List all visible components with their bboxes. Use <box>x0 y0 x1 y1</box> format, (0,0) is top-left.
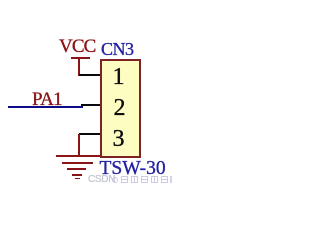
ground bar 5 <box>75 178 80 180</box>
pin number 2 <box>111 96 128 120</box>
type label TSW-30 <box>100 159 166 179</box>
ground bar 3 <box>67 168 86 170</box>
ground stem wire <box>78 134 80 157</box>
pin 2 stub <box>81 104 100 106</box>
connector CN3 body <box>100 59 141 158</box>
watermark @ glyph <box>112 177 118 183</box>
pin 3 stub <box>79 133 100 135</box>
label VCC <box>59 37 95 56</box>
pin 1 stub <box>79 74 100 76</box>
net label PA1 <box>32 90 62 109</box>
wire PA1 <box>8 106 83 108</box>
power symbol VCC bar <box>71 57 90 59</box>
ground bar 1 <box>56 155 100 157</box>
power symbol VCC stem <box>78 59 80 76</box>
pin number 3 <box>110 127 127 151</box>
watermark CJK glyph blocks <box>121 176 129 184</box>
pin number 1 <box>110 65 127 89</box>
watermark CSDN <box>88 175 115 185</box>
ground bar 4 <box>72 174 82 176</box>
ground bar 2 <box>62 162 93 164</box>
designator CN3 <box>101 40 134 58</box>
